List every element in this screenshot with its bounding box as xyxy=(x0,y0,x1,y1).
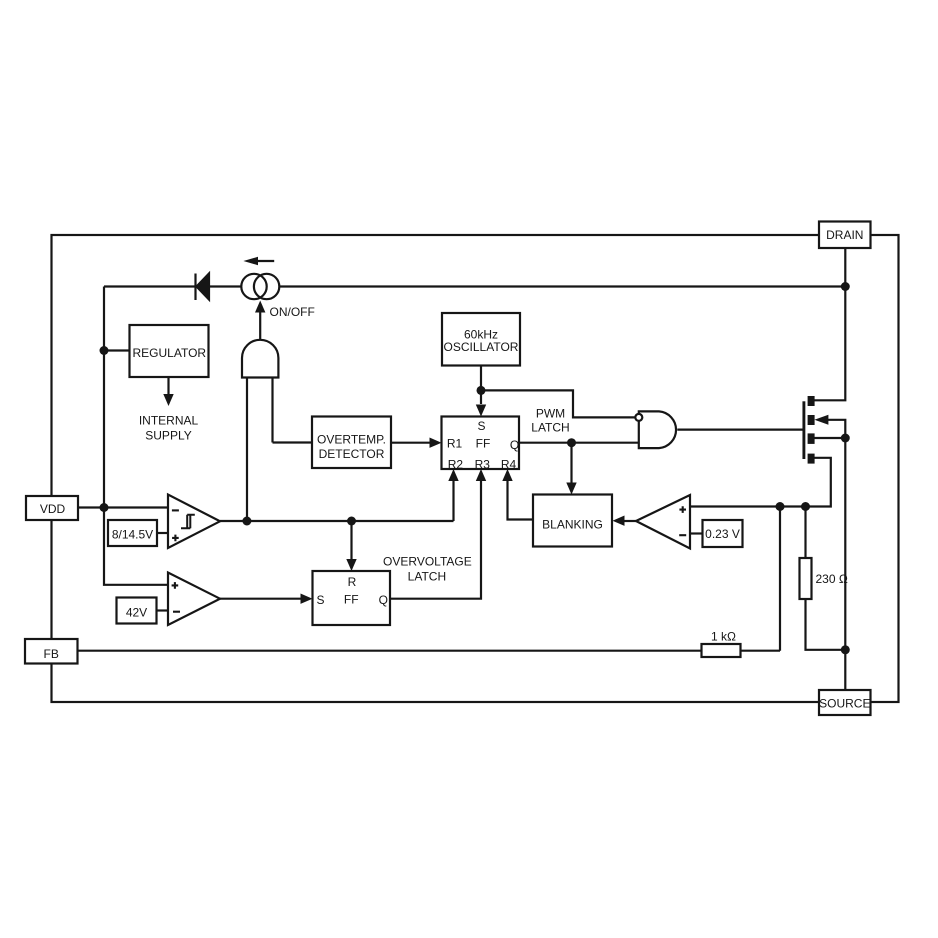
svg-text:S: S xyxy=(477,419,485,433)
VDD pad xyxy=(26,496,78,520)
pin - of U5 xyxy=(679,534,686,536)
pin + of U1 xyxy=(172,535,179,542)
svg-text:ON/OFF: ON/OFF xyxy=(270,305,315,319)
arrow: AND output to current source xyxy=(255,301,265,340)
IC boundary xyxy=(52,235,899,702)
wire: U5 + input sense line xyxy=(690,458,831,507)
wire: VDD internal bus (vertical left) xyxy=(104,287,168,585)
current source I1 xyxy=(241,274,279,299)
wire: source rail xyxy=(844,438,846,690)
svg-text:INTERNAL: INTERNAL xyxy=(139,413,199,427)
arrow: into S of PWM latch xyxy=(476,405,486,417)
arrow: U5 output into blanking xyxy=(613,516,637,526)
42V reference box xyxy=(117,598,157,624)
wire: 8/14.5V ref to comparator xyxy=(157,532,168,534)
overvoltage latch U4 xyxy=(313,571,391,625)
node: junction dots xyxy=(100,282,850,654)
svg-text:R: R xyxy=(348,575,357,589)
blanking block xyxy=(533,495,612,547)
MOSFET Q1 xyxy=(804,396,829,464)
svg-text:REGULATOR: REGULATOR xyxy=(133,346,207,360)
pin + of U3 xyxy=(172,582,179,589)
svg-text:OVERTEMP.: OVERTEMP. xyxy=(317,433,386,447)
resistor R1 1kohm xyxy=(702,644,741,657)
svg-text:R4: R4 xyxy=(501,457,517,471)
svg-text:LATCH: LATCH xyxy=(408,569,446,583)
wire: current source to drain rail xyxy=(279,285,845,287)
regulator block xyxy=(130,325,209,377)
svg-text:LATCH: LATCH xyxy=(531,420,569,434)
wire: U1 output line xyxy=(220,520,454,522)
comparator U5 (current limit 0.23V) xyxy=(636,495,690,549)
diode D1 xyxy=(196,274,210,301)
svg-text:FF: FF xyxy=(476,436,491,450)
wire: NAND output to MOSFET gate xyxy=(677,429,803,431)
wire: supply line from bus to diode xyxy=(104,285,195,287)
overtemp detector block xyxy=(312,417,391,469)
pin - of U1 xyxy=(172,509,179,511)
arrow: Q to blanking xyxy=(566,443,576,495)
wire: OV latch Q to R3 riser xyxy=(390,478,481,599)
wire: substrate tap xyxy=(814,437,845,439)
resistor R2 230ohm xyxy=(800,558,812,599)
wire: bus to regulator xyxy=(104,349,130,351)
wire: FB line xyxy=(78,650,702,652)
DRAIN pad xyxy=(819,222,871,249)
svg-text:8/14.5V: 8/14.5V xyxy=(112,528,153,542)
svg-text:0.23 V: 0.23 V xyxy=(705,527,740,541)
comparator U1 (UV/OV with hysteresis) xyxy=(168,495,220,549)
wire: body connection xyxy=(828,420,845,438)
wire: VDD pad to bus and comparator xyxy=(78,506,168,508)
pin + of U5 xyxy=(679,506,686,513)
svg-text:Q: Q xyxy=(379,593,388,607)
0.23V reference box xyxy=(703,520,743,547)
wire: 230ohm riser top xyxy=(804,507,806,559)
svg-text:DETECTOR: DETECTOR xyxy=(319,447,385,461)
svg-text:Q: Q xyxy=(510,438,519,452)
svg-text:SOURCE: SOURCE xyxy=(819,697,870,711)
current direction arrow xyxy=(243,257,274,265)
arrow: R input of OV latch xyxy=(346,521,356,571)
svg-text:230 Ω: 230 Ω xyxy=(816,572,848,586)
FB pad xyxy=(25,639,78,664)
wire: oscillator branch to NAND inverted input xyxy=(481,390,635,417)
svg-text:PWM: PWM xyxy=(536,406,565,420)
svg-text:FF: FF xyxy=(344,593,359,607)
PWM latch FF U6 xyxy=(442,417,520,470)
wire: AND gate left input xyxy=(246,377,248,521)
svg-text:S: S xyxy=(317,593,325,607)
wire: drain rail xyxy=(814,248,845,400)
8/14.5V reference box xyxy=(108,520,157,546)
svg-text:42V: 42V xyxy=(126,606,147,620)
svg-text:1 kΩ: 1 kΩ xyxy=(711,630,736,644)
svg-text:FB: FB xyxy=(44,647,59,661)
wire: diode to current source xyxy=(209,285,241,287)
wire: oscillator output xyxy=(480,366,482,405)
wire: 230ohm bottom to source rail xyxy=(806,599,846,650)
comparator U3 (42V) xyxy=(168,573,220,626)
arrow: R4 into FF xyxy=(502,469,512,481)
SOURCE pad xyxy=(819,690,871,715)
svg-text:R1: R1 xyxy=(447,436,463,450)
wire: AND gate right input from overtemp xyxy=(273,377,313,443)
svg-text:OVERVOLTAGE: OVERVOLTAGE xyxy=(383,555,472,569)
svg-text:DRAIN: DRAIN xyxy=(826,228,863,242)
svg-text:BLANKING: BLANKING xyxy=(542,518,603,532)
pin - of U3 xyxy=(173,611,180,613)
svg-text:OSCILLATOR: OSCILLATOR xyxy=(444,340,519,354)
svg-text:R3: R3 xyxy=(475,457,491,471)
wire: PWM latch Q to NAND xyxy=(519,442,639,444)
wire: blanking output to R4 riser xyxy=(508,478,534,520)
wire: 42V ref to comparator xyxy=(157,609,169,611)
svg-text:R2: R2 xyxy=(448,457,464,471)
NAND gate U7 xyxy=(635,411,676,448)
arrow: R2 riser xyxy=(448,469,458,521)
wire: 1kohm to sense riser xyxy=(741,507,781,651)
arrow: U3 output to S of OV latch xyxy=(220,594,313,604)
arrow: overtemp detector to R1 xyxy=(391,438,442,448)
wire: 0.23V ref to comparator xyxy=(690,532,703,534)
AND gate U2 (on/off control) xyxy=(242,340,278,378)
svg-text:VDD: VDD xyxy=(40,502,66,516)
oscillator block xyxy=(442,313,520,366)
svg-text:SUPPLY: SUPPLY xyxy=(145,428,191,442)
arrow: R3 into FF xyxy=(476,469,486,481)
arrow: regulator to internal supply xyxy=(163,377,173,406)
